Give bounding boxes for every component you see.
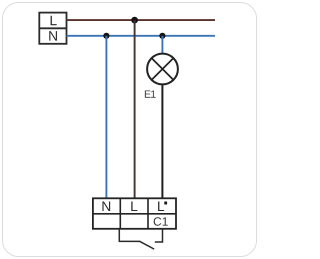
wire: phase L (brown) horizontal <box>67 19 216 21</box>
node: junction on L wire <box>131 17 138 24</box>
switch blade <box>139 241 154 249</box>
wire: stub from N wire to lamp (blue) <box>161 36 163 54</box>
device terminal L label <box>131 202 137 211</box>
wire: switch right contact <box>155 229 163 242</box>
label E1 <box>145 90 156 97</box>
supply terminal L label <box>51 16 57 25</box>
wire: neutral N (blue) horizontal <box>67 35 216 37</box>
device terminal block <box>93 198 176 229</box>
internal switch contact C1 <box>119 229 162 249</box>
lamp E1 <box>147 54 178 85</box>
node: junction on N wire <box>103 33 109 39</box>
wire: N drop to terminal N (blue vertical) <box>105 36 107 199</box>
device terminal L' label <box>158 202 167 212</box>
wire: L drop to terminal L (dark brown vertical) <box>134 20 136 198</box>
supply box L/N <box>39 13 66 44</box>
label C1 <box>154 217 168 226</box>
supply terminal N label <box>49 31 57 40</box>
wire: switch left stub <box>119 229 140 242</box>
device terminal N label <box>102 202 110 211</box>
node: junction on N wire at lamp <box>159 33 165 39</box>
wire: lamp to terminal L' (black vertical) <box>161 84 163 198</box>
